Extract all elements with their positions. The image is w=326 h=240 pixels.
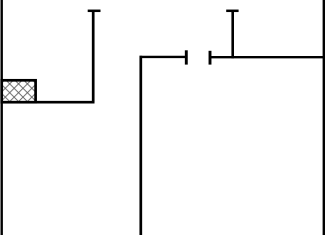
wire: horizontal from capacitor C1 right plate to right bus (210, 56, 325, 58)
wire: middle vertical line (down to bottom edge) (139, 56, 142, 235)
wire: left bus line (full height) (1, 0, 3, 235)
capacitor C1 left plate (185, 50, 188, 64)
terminal T1 (top T-bar, left) (88, 10, 101, 13)
capacitor C1 right plate (209, 51, 212, 65)
wire: right bus line (full height) (323, 0, 325, 235)
wire: horizontal from middle vertical to capacitor C1 left plate (140, 56, 187, 58)
wire: right terminal vertical stem (231, 11, 234, 59)
wire: left terminal vertical stem (92, 11, 95, 102)
hatched load box R1 (crosshatched rectangle on left bus) (2, 80, 36, 102)
wire: horizontal from box R1 to left terminal stem (34, 101, 95, 104)
terminal T2 (top T-bar, right) (226, 10, 238, 13)
